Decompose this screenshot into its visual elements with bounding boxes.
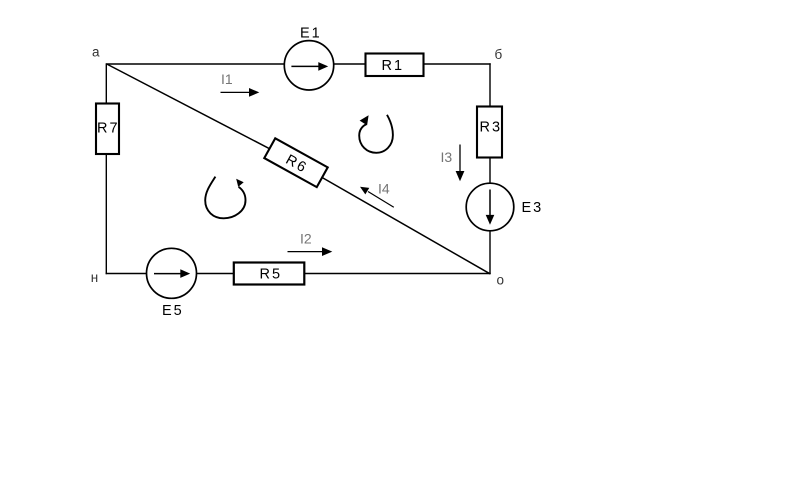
- wire R1 to node b: [424, 63, 491, 65]
- wire diagonal upper segment (a to R6): [107, 64, 296, 163]
- wire node b to R3: [489, 63, 491, 107]
- voltage source E3: [466, 183, 543, 231]
- svg-text:R5: R5: [260, 267, 283, 283]
- svg-text:I1: I1: [221, 71, 233, 87]
- resistor R6 (rotated on diagonal): [264, 138, 327, 187]
- voltage source E1: [284, 26, 333, 90]
- svg-text:E5: E5: [162, 303, 184, 319]
- svg-text:б: б: [495, 47, 503, 62]
- wire node n to R7: [105, 153, 107, 274]
- loop arrow right mesh (clockwise): [359, 115, 393, 153]
- wire E3 to node o: [489, 230, 491, 274]
- svg-text:I4: I4: [378, 181, 390, 197]
- current I4 arrow: [360, 187, 394, 208]
- voltage source E5: [147, 248, 197, 319]
- wire E5 to node n: [106, 273, 147, 275]
- svg-text:E3: E3: [522, 200, 544, 216]
- wire top-left (a to E1): [106, 63, 284, 65]
- svg-text:R7: R7: [97, 120, 120, 136]
- loop arrow left mesh (counterclockwise): [205, 177, 245, 219]
- current I2 arrow: [288, 247, 333, 256]
- resistor R1: [366, 54, 424, 77]
- svg-text:I2: I2: [300, 231, 312, 247]
- current I1 arrow: [221, 88, 260, 97]
- svg-text:R3: R3: [480, 120, 503, 136]
- svg-text:о: о: [497, 273, 505, 288]
- resistor R5: [234, 263, 304, 285]
- resistor R3: [477, 107, 502, 158]
- resistor R7: [96, 104, 120, 155]
- svg-text:R1: R1: [382, 58, 405, 74]
- wire node o to R5: [304, 273, 491, 275]
- wire R7 to node a: [105, 63, 107, 104]
- svg-text:E1: E1: [300, 26, 322, 42]
- svg-text:н: н: [91, 270, 98, 285]
- svg-text:I3: I3: [441, 149, 453, 165]
- wire E1 to R1: [334, 63, 366, 65]
- wire diagonal lower segment (R6 to o): [296, 163, 490, 274]
- wire R5 to E5: [196, 273, 234, 275]
- svg-text:а: а: [92, 45, 100, 60]
- wire R3 to E3: [489, 157, 491, 184]
- current I3 arrow: [456, 145, 465, 182]
